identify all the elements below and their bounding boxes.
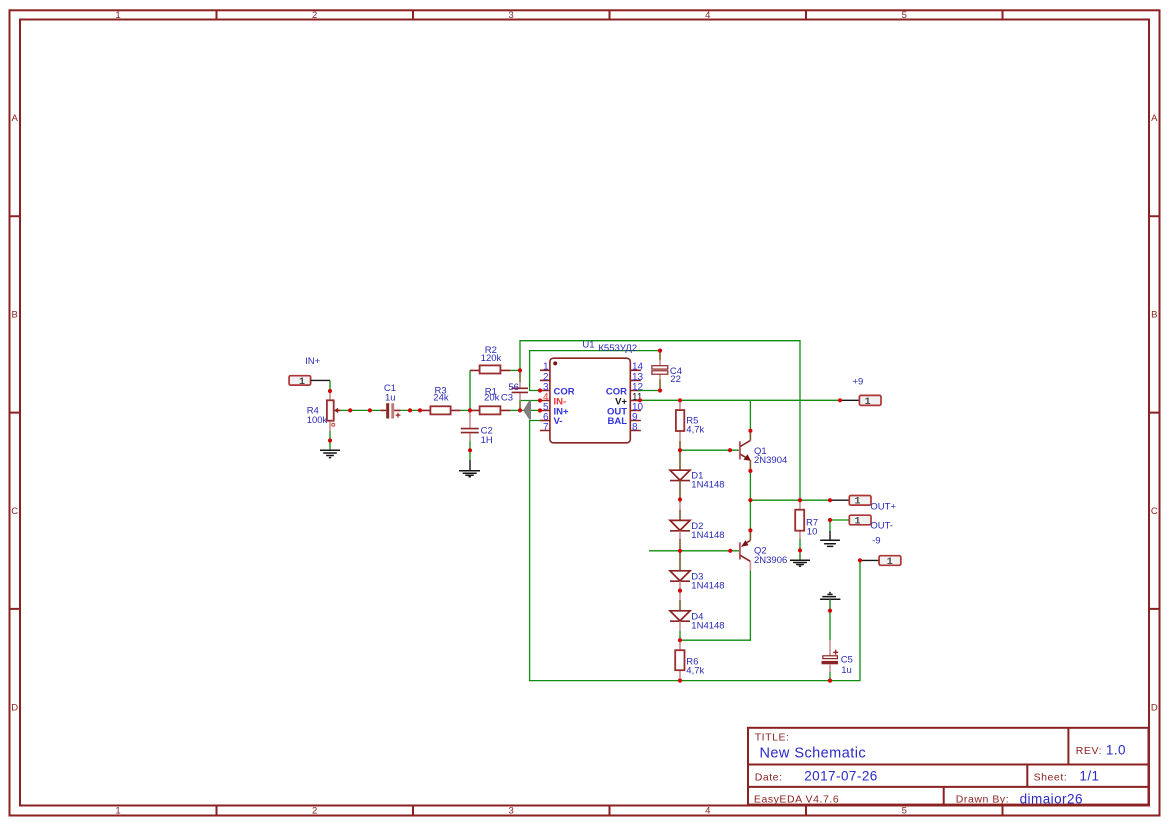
svg-text:C: C bbox=[11, 506, 18, 517]
junction IN+ net at R4 top bbox=[328, 389, 332, 393]
junction at C1 right bbox=[408, 408, 412, 412]
junction R6 bottom on V- rail bbox=[678, 679, 682, 683]
svg-text:4: 4 bbox=[705, 806, 710, 817]
svg-text:Sheet:: Sheet: bbox=[1034, 771, 1068, 783]
svg-text:OUT-: OUT- bbox=[870, 521, 893, 532]
diode D3 1N4148 bbox=[670, 551, 690, 591]
ground flipped above C5 bbox=[820, 593, 840, 611]
transistor Q1 2N3904 bbox=[740, 431, 751, 471]
svg-text:C5: C5 bbox=[841, 655, 853, 666]
svg-text:1: 1 bbox=[887, 557, 893, 568]
resistor R5 bbox=[676, 400, 684, 450]
resistor R1 bbox=[470, 406, 520, 414]
diode D4 1N4148 bbox=[670, 591, 690, 641]
label D2 1N4148 bbox=[691, 521, 724, 541]
label OUT- bbox=[870, 521, 893, 532]
connector P4 OUT- bbox=[830, 515, 871, 527]
svg-text:A: A bbox=[12, 113, 19, 124]
junction pin 3 COR bbox=[538, 388, 542, 392]
capacitor C2 bbox=[461, 412, 479, 450]
junction C5 top bbox=[828, 609, 832, 613]
label D3 1N4148 bbox=[691, 572, 724, 592]
label R6 4,7k bbox=[686, 657, 704, 677]
title block bbox=[748, 728, 1149, 805]
capacitor C1 polarized bbox=[380, 403, 400, 418]
junction Q1 collector bbox=[748, 429, 752, 433]
svg-text:2N3904: 2N3904 bbox=[754, 455, 787, 466]
svg-text:A: A bbox=[1151, 113, 1158, 124]
netflag gray arrow bbox=[523, 401, 531, 420]
capacitor C4 bbox=[652, 351, 668, 391]
label C1 1u bbox=[384, 383, 396, 403]
junction OUT+ connector lead bbox=[828, 498, 832, 502]
diode D2 1N4148 bbox=[670, 500, 690, 551]
label U1 K553UD2 bbox=[582, 339, 637, 354]
junction -9 connector lead bbox=[858, 558, 862, 562]
label R3 24k bbox=[433, 386, 449, 404]
label Q2 2N3906 bbox=[754, 546, 787, 566]
svg-text:dimaior26: dimaior26 bbox=[1020, 791, 1083, 806]
wire Q1 emitter down bbox=[749, 471, 751, 531]
junction C4 top bbox=[658, 349, 662, 353]
junction R5/D1/Q1 base node bbox=[678, 448, 682, 452]
svg-text:OUT+: OUT+ bbox=[870, 502, 896, 513]
svg-text:1u: 1u bbox=[841, 665, 852, 676]
capacitor C3 bbox=[512, 370, 529, 410]
svg-text:IN+: IN+ bbox=[305, 356, 321, 367]
connector P1 IN+ bbox=[289, 376, 330, 388]
wire Q1 collector to V+ bbox=[749, 400, 751, 430]
svg-text:1N4148: 1N4148 bbox=[691, 530, 724, 541]
junction R1/C3/IN+ node bbox=[518, 408, 522, 412]
resistor R6 bbox=[675, 640, 684, 680]
svg-text:1N4148: 1N4148 bbox=[691, 580, 724, 591]
junction OUT- connector lead bbox=[828, 518, 832, 522]
junction C4 bottom pin 12 bbox=[658, 388, 662, 392]
svg-text:20k: 20k bbox=[484, 393, 500, 404]
svg-text:1/1: 1/1 bbox=[1079, 768, 1099, 783]
junction D4/R6/Q2 collector node bbox=[678, 638, 682, 642]
label 56 C3 bbox=[501, 382, 519, 403]
svg-text:2017-07-26: 2017-07-26 bbox=[804, 768, 878, 783]
label R2 120k bbox=[481, 345, 502, 364]
connector P3 OUT+ bbox=[830, 496, 871, 508]
junction D1-D2 node bbox=[678, 497, 682, 501]
junction pin 5 IN+ bbox=[538, 408, 542, 412]
svg-text:New Schematic: New Schematic bbox=[760, 745, 867, 761]
svg-text:К553УД2: К553УД2 bbox=[598, 343, 637, 354]
junction Q2 base wire bbox=[728, 549, 732, 553]
label C2 1H bbox=[481, 426, 493, 447]
junction V+ at R5 top bbox=[678, 398, 682, 402]
junction C5 bottom on V- rail bbox=[828, 679, 832, 683]
wire Q1 base bbox=[680, 449, 739, 451]
ground under R7 bbox=[790, 553, 810, 567]
capacitor C5 polarized bbox=[822, 611, 839, 681]
label R7 10 bbox=[806, 518, 818, 538]
svg-text:D: D bbox=[11, 702, 18, 713]
svg-text:Date:: Date: bbox=[755, 771, 783, 783]
U1 pin names bbox=[554, 386, 628, 427]
svg-text:Drawn By:: Drawn By: bbox=[956, 793, 1009, 805]
junction D2-D3 Q2 base node bbox=[678, 549, 682, 553]
svg-text:1H: 1H bbox=[481, 435, 493, 446]
svg-text:C: C bbox=[1151, 506, 1158, 517]
svg-text:4,7k: 4,7k bbox=[686, 666, 704, 677]
wire V+ rail bbox=[638, 399, 840, 401]
svg-text:1: 1 bbox=[115, 806, 120, 817]
svg-text:4: 4 bbox=[705, 10, 710, 21]
svg-text:1u: 1u bbox=[385, 393, 396, 404]
junction R4 bottom to ground bbox=[328, 438, 332, 442]
label R5 4,7k bbox=[686, 416, 704, 436]
wire wiper to C1 bbox=[341, 409, 381, 411]
svg-text:3: 3 bbox=[509, 10, 514, 21]
svg-text:B: B bbox=[12, 310, 18, 321]
svg-text:22: 22 bbox=[670, 374, 681, 385]
label R1 20k bbox=[484, 386, 500, 403]
wire IN+ to R4 bbox=[329, 380, 331, 391]
U1 pin numbers left bbox=[543, 362, 549, 433]
ground under OUT- bbox=[820, 520, 840, 546]
wire pin12 to C4 bottom bbox=[638, 390, 660, 392]
svg-text:1: 1 bbox=[854, 497, 860, 508]
svg-text:1N4148: 1N4148 bbox=[691, 480, 724, 491]
wire feedback top loop bbox=[520, 341, 800, 501]
ground under R4 bbox=[320, 450, 340, 457]
op-amp U1 K553UD2 bbox=[540, 358, 641, 443]
wire OUT+ rail bbox=[750, 499, 830, 501]
U1 pin numbers right bbox=[632, 362, 644, 433]
junction Q2 emitter bbox=[748, 528, 752, 532]
svg-text:1: 1 bbox=[299, 377, 305, 388]
junction at C1 left bbox=[368, 408, 372, 412]
title block texts bbox=[754, 732, 1126, 807]
svg-text:C3: C3 bbox=[501, 392, 513, 403]
connector P2 +9 bbox=[840, 395, 881, 408]
svg-text:D: D bbox=[1151, 702, 1158, 713]
junction Q1 emitter bbox=[748, 469, 752, 473]
junction pin 4 IN- bbox=[538, 398, 542, 402]
junction feedback/R7/OUT+ node bbox=[798, 498, 802, 502]
wire node A up to R2 bbox=[469, 370, 471, 410]
junction +9 connector lead bbox=[838, 398, 842, 402]
label D1 1N4148 bbox=[691, 471, 724, 491]
label +9 bbox=[853, 377, 864, 388]
svg-text:B: B bbox=[1151, 310, 1157, 321]
wire C1 to R3 bbox=[401, 409, 421, 411]
wire Q2 base bbox=[649, 550, 739, 552]
svg-text:V-: V- bbox=[554, 416, 563, 427]
svg-text:-9: -9 bbox=[872, 535, 880, 546]
svg-text:3: 3 bbox=[509, 806, 514, 817]
svg-text:REV:: REV: bbox=[1076, 745, 1102, 757]
junction wiper net bbox=[348, 408, 352, 412]
svg-text:1.0: 1.0 bbox=[1106, 743, 1126, 758]
svg-text:EasyEDA V4.7.6: EasyEDA V4.7.6 bbox=[754, 793, 839, 805]
svg-text:+9: +9 bbox=[853, 377, 864, 388]
resistor R7 bbox=[795, 500, 804, 550]
resistor R2 bbox=[470, 365, 520, 373]
transistor Q2 2N3906 bbox=[740, 530, 751, 570]
svg-text:U1: U1 bbox=[582, 339, 594, 350]
junction R2/C3/feedback node bbox=[518, 368, 522, 372]
junction Q1 base wire bbox=[728, 448, 732, 452]
diode D1 1N4148 bbox=[670, 450, 690, 499]
label OUT+ bbox=[870, 502, 896, 513]
svg-text:5: 5 bbox=[902, 806, 907, 817]
svg-text:100k: 100k bbox=[307, 415, 328, 426]
junction C2 bottom to ground bbox=[468, 448, 472, 452]
svg-text:7: 7 bbox=[543, 422, 549, 433]
svg-text:2: 2 bbox=[312, 10, 317, 21]
wire pin4 bbox=[521, 400, 540, 402]
svg-text:10: 10 bbox=[807, 526, 818, 537]
wire pin3 to C4 top bbox=[530, 351, 660, 391]
svg-text:24k: 24k bbox=[433, 392, 449, 403]
label Q1 2N3904 bbox=[754, 446, 787, 466]
connector P5 -9 bbox=[860, 556, 901, 568]
svg-text:1: 1 bbox=[115, 10, 120, 21]
svg-text:2N3906: 2N3906 bbox=[754, 555, 787, 566]
wire Q2 collector down to D4 bottom bbox=[680, 571, 750, 641]
svg-text:5: 5 bbox=[902, 10, 907, 21]
label -9 bbox=[872, 535, 880, 546]
svg-text:1N4148: 1N4148 bbox=[691, 621, 724, 632]
label R4 100k bbox=[307, 405, 328, 426]
label IN+ bbox=[305, 356, 321, 367]
svg-text:8: 8 bbox=[632, 422, 638, 433]
junction node A R3/R1/R2/C2 bbox=[468, 408, 472, 412]
label C5 1u bbox=[841, 655, 853, 677]
wire R3 to node A bbox=[461, 409, 470, 411]
junction OUT node at emitters bbox=[748, 498, 752, 502]
svg-text:1: 1 bbox=[854, 516, 860, 527]
junction R7 bottom to ground bbox=[798, 548, 802, 552]
svg-text:BAL: BAL bbox=[607, 416, 627, 427]
wire R4 bottom bbox=[329, 431, 331, 450]
label D4 1N4148 bbox=[691, 612, 724, 632]
junction D3-D4 node bbox=[678, 589, 682, 593]
svg-text:TITLE:: TITLE: bbox=[755, 732, 790, 744]
svg-text:4,7k: 4,7k bbox=[686, 425, 704, 436]
potentiometer R4 bbox=[327, 391, 341, 431]
wire pin5 bbox=[520, 409, 540, 411]
svg-text:120k: 120k bbox=[481, 353, 502, 364]
wire pin6 V- loop bbox=[530, 421, 860, 681]
label C4 22 bbox=[670, 366, 682, 385]
junction pin 11 V+ bbox=[638, 398, 642, 402]
resistor R3 bbox=[420, 406, 460, 414]
svg-text:1: 1 bbox=[865, 397, 871, 408]
junction at R3 left bbox=[418, 408, 422, 412]
svg-text:2: 2 bbox=[312, 806, 317, 817]
ground under C2 bbox=[459, 450, 480, 476]
